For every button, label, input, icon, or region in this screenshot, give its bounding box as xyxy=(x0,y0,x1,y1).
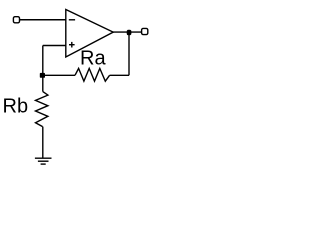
input terminal (left port) xyxy=(13,17,19,23)
output terminal (right port) xyxy=(142,28,148,34)
wire: Ra to output column xyxy=(110,74,129,76)
svg-text:Rb: Rb xyxy=(3,96,29,118)
op-amp minus sign (inverting input marker) xyxy=(69,19,75,20)
resistor Ra (feedback) zigzag xyxy=(75,68,110,81)
wire: junction to resistor Ra xyxy=(43,74,75,76)
junction node OUT dot xyxy=(127,30,132,35)
wire: vertical feedback column down to junction xyxy=(42,46,44,92)
resistor Rb (to ground) zigzag xyxy=(36,92,48,127)
wire: op-amp output to terminal xyxy=(113,31,142,33)
svg-text:Ra: Ra xyxy=(80,47,106,69)
wire: output column vertical xyxy=(128,32,130,75)
wire: op-amp non-inverting input going left xyxy=(43,45,66,47)
wire: input terminal to op-amp inverting input xyxy=(20,19,66,21)
op-amp plus sign (non-inverting input marker) xyxy=(69,44,75,45)
ground symbol xyxy=(35,157,52,159)
op-amp U1 triangle body xyxy=(66,10,113,58)
wire: Rb to ground xyxy=(42,127,44,159)
junction node A (feedback tap) xyxy=(40,73,45,78)
